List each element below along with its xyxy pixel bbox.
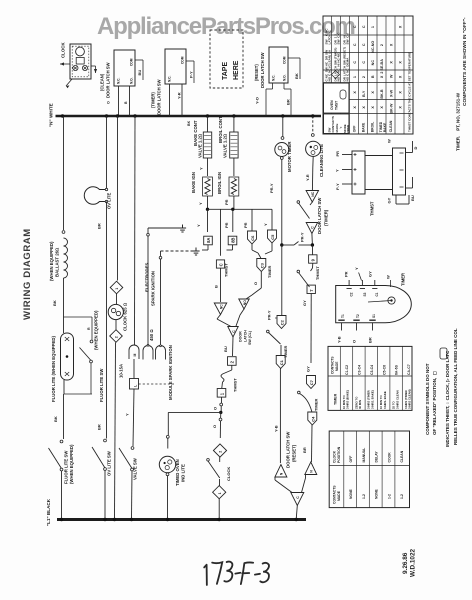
svg-text:HERE: HERE [233, 60, 240, 80]
svg-text:C1: C1 [279, 359, 284, 365]
svg-text:WIRING DIAGRAM: WIRING DIAGRAM [22, 228, 33, 320]
svg-text:2: 2 [219, 451, 223, 453]
svg-text:C6: C6 [250, 235, 255, 241]
svg-text:NC: NC [311, 191, 315, 196]
svg-text:VALVE 1.2Ω: VALVE 1.2Ω [223, 133, 228, 158]
svg-text:PR-Y: PR-Y [269, 183, 274, 193]
fluorescent tube [61, 333, 74, 380]
svg-text:P-Y: P-Y [188, 71, 193, 78]
motor timer column [281, 114, 284, 117]
svg-text:CLOCK: CLOCK [61, 42, 66, 58]
common reset triangle [291, 493, 304, 506]
svg-text:BALLAST 26Ω: BALLAST 26Ω [55, 247, 60, 277]
svg-text:C: C [362, 25, 366, 28]
svg-text:NO C NC (CLEAN) LA: NO C NC (CLEAN) LA [328, 49, 332, 81]
svg-text:O: O [106, 101, 110, 104]
svg-text:MADE: MADE [335, 362, 339, 371]
svg-text:BU: BU [223, 346, 228, 352]
svg-text:BU: BU [410, 195, 415, 201]
svg-text:THMST: THMST [232, 378, 237, 392]
svg-text:O: O [212, 425, 217, 428]
svg-text:TMST: TMST [335, 100, 339, 110]
svg-text:(WHEN EQUIPPED): (WHEN EQUIPPED) [94, 310, 99, 350]
8A connector [207, 209, 209, 232]
reset sw right leg BR [283, 83, 285, 89]
wire V2: clock motor [116, 114, 119, 117]
svg-text:2: 2 [362, 76, 366, 78]
bake contactor valve column [206, 114, 209, 117]
svg-text:R: R [87, 327, 91, 330]
svg-text:B: B [214, 285, 219, 288]
svg-text:(WHEN EQUIPPED): (WHEN EQUIPPED) [49, 241, 54, 281]
svg-text:C: C [353, 61, 357, 64]
svg-text:COMPONENTS ARE SHOWN IN "OFF"-: COMPONENTS ARE SHOWN IN "OFF"- [462, 17, 468, 106]
thmst box 9 [309, 255, 317, 263]
cross link with switch tick [282, 244, 294, 246]
svg-text:NO C NC DEMA: NO C NC DEMA [346, 57, 350, 82]
clean sw legs to bus [118, 86, 120, 116]
door latch timer triangle NC [306, 191, 319, 203]
bottom bus "L1" BLACK [57, 518, 306, 521]
svg-text:PR-Y: PR-Y [300, 232, 305, 242]
P-Y pigtail [186, 60, 194, 62]
svg-text:3 HRS CLEAN): 3 HRS CLEAN) [408, 389, 412, 409]
svg-text:O: O [212, 407, 217, 410]
svg-text:DOOR: DOOR [239, 331, 243, 342]
ground 1 [182, 225, 184, 229]
svg-text:OV LITE SW: OV LITE SW [107, 450, 112, 476]
reset triangle NC [305, 462, 317, 475]
svg-text:NC-NO: NC-NO [371, 41, 375, 53]
valve sw [131, 447, 134, 450]
C2 connector [277, 316, 286, 329]
fluor lite sw [91, 317, 93, 340]
timer assembly [336, 286, 412, 323]
svg-text:Y-B: Y-B [273, 425, 278, 432]
svg-text:BAKE IGN: BAKE IGN [191, 172, 196, 193]
svg-text:COOK: COOK [387, 452, 391, 463]
svg-text:3 HRS. BAKE): 3 HRS. BAKE) [371, 390, 375, 409]
svg-text:(TIMER): (TIMER) [151, 92, 156, 108]
fluor wire to bottom bus + switch [63, 394, 65, 439]
svg-text:O: O [253, 282, 258, 285]
svg-text:THMST: THMST [224, 263, 229, 277]
cleaning lite column [311, 114, 314, 117]
svg-text:RELLES TRUE CONFIGURATION, ALL: RELLES TRUE CONFIGURATION, ALL FEED LINE… [453, 328, 458, 445]
wire: fluor lite feed (ballast) [61, 114, 64, 117]
timer contact to C4 [299, 389, 311, 394]
BK pigtail [288, 57, 300, 59]
svg-text:C1: C1 [375, 292, 379, 296]
svg-text:O: O [351, 340, 356, 343]
svg-text:DOOR LATCH SW: DOOR LATCH SW [106, 62, 111, 98]
svg-text:8A: 8A [206, 238, 211, 243]
svg-text:Y: Y [263, 223, 268, 226]
spark module domes 2,3 + electrodes [143, 346, 153, 360]
svg-text:X-W: X-W [389, 89, 393, 97]
svg-text:PR: PR [335, 151, 340, 157]
svg-text:"N" WHITE: "N" WHITE [49, 103, 54, 127]
svg-text:N.O.: N.O. [283, 74, 287, 81]
svg-text:C: C [362, 61, 366, 64]
svg-text:NO: NO [243, 300, 247, 305]
svg-text:Y-B: Y-B [336, 336, 341, 343]
timed oven ind lite [167, 412, 169, 435]
clock position table [329, 431, 409, 508]
timer selector triangle [239, 299, 250, 309]
wire V3: spark module / valve sw [133, 114, 136, 117]
svg-text:DELAY: DELAY [375, 451, 379, 463]
svg-text:B: B [124, 101, 128, 104]
svg-text:W: W [389, 74, 393, 78]
clock (top-left component box) [70, 44, 91, 79]
svg-text:(CLEAN): (CLEAN) [100, 73, 105, 91]
ballast coil 26 ohm [64, 238, 68, 278]
svg-text:ELECTRODES: ELECTRODES [145, 263, 150, 292]
svg-text:BK-B: BK-B [380, 89, 384, 99]
timer sw legs [169, 84, 171, 116]
svg-text:DOOR LATCH SW: DOOR LATCH SW [260, 52, 265, 88]
svg-text:W: W [387, 139, 392, 143]
svg-text:Y-R: Y-R [305, 174, 310, 181]
svg-text:(RESET): (RESET) [254, 64, 259, 81]
jumper to timed-oven wire [168, 411, 221, 413]
svg-text:GY: GY [387, 197, 392, 203]
svg-text:C4: C4 [310, 416, 315, 422]
svg-text:"L1" BLACK: "L1" BLACK [46, 498, 51, 526]
C5 connector [271, 209, 273, 230]
svg-text:9.26.86: 9.26.86 [402, 552, 409, 574]
diamond mark in chart [332, 71, 340, 79]
svg-text:D: D [413, 147, 418, 150]
svg-text:NC: NC [371, 60, 375, 66]
svg-text:W: W [386, 275, 391, 279]
handwritten 173-F-3 [204, 560, 270, 586]
svg-text:1-2: 1-2 [387, 494, 391, 499]
thmst C branch [220, 209, 222, 255]
svg-text:NONE: NONE [375, 488, 379, 499]
thmst box 7 [307, 285, 315, 293]
door latch timer triangle C [306, 223, 318, 234]
svg-text:1-2: 1-2 [400, 494, 404, 499]
ground 2 [195, 248, 197, 252]
BU pigtail of clean sw [135, 59, 143, 61]
svg-text:COMPONENT SYMBOLS DO NOT: COMPONENT SYMBOLS DO NOT [425, 363, 430, 435]
contact chart table [323, 16, 413, 134]
wire V1: OV LITE / OV LITE SW [105, 114, 108, 117]
svg-text:DOOR LATCH SW: DOOR LATCH SW [286, 431, 291, 468]
svg-text:BAKE: BAKE [383, 122, 387, 132]
svg-text:Y-R: Y-R [176, 92, 181, 99]
svg-text:Y: Y [354, 267, 359, 270]
svg-text:C3-C4: C3-C4 [358, 365, 362, 375]
svg-text:PR-Y: PR-Y [267, 310, 272, 320]
svg-text:LATCH: LATCH [243, 330, 247, 342]
svg-text:FLUOR LITE SW: FLUOR LITE SW [64, 450, 69, 484]
svg-text:8B: 8B [230, 238, 235, 243]
oven light lamp [84, 187, 106, 205]
svg-text:1: 1 [353, 76, 357, 78]
svg-text:BR: BR [97, 223, 102, 229]
broil contactor valve column [232, 114, 235, 117]
C6 connector [251, 209, 253, 231]
svg-text:450 Ω: 450 Ω [149, 329, 154, 341]
svg-text:TIMER. PT, NO, 327151-W: TIMER. PT, NO, 327151-W [456, 92, 461, 151]
top bus "N" WHITE [56, 115, 322, 117]
svg-text:C3-C4: C3-C4 [370, 365, 374, 375]
svg-text:AppliancePartsPros.com: AppliancePartsPros.com [97, 13, 355, 40]
svg-text:OFF: OFF [352, 126, 356, 133]
svg-text:1: 1 [218, 492, 222, 494]
svg-text:2 SE-BA: 2 SE-BA [380, 59, 384, 74]
svg-text:OFF: OFF [349, 456, 353, 463]
svg-text:B-Y: B-Y [362, 90, 366, 97]
svg-text:BROIL: BROIL [371, 122, 375, 133]
svg-text:C: C [362, 43, 366, 46]
10-15A box [130, 379, 139, 390]
C7 connector [307, 376, 316, 389]
thmst selector triangle NC [214, 303, 227, 315]
door latch sw (clean) [114, 50, 135, 86]
svg-text:PR: PR [224, 222, 229, 228]
spark module dome 1 [129, 345, 139, 359]
svg-text:MODULE SPARK IGNITION: MODULE SPARK IGNITION [168, 345, 173, 400]
svg-text:C2: C2 [350, 292, 354, 296]
svg-text:S1: S1 [372, 314, 376, 318]
svg-text:DOOR LATCH SW: DOOR LATCH SW [317, 197, 322, 234]
svg-text:SW CN: SW CN [346, 33, 350, 45]
svg-text:10-15A: 10-15A [119, 364, 124, 378]
svg-text:CONTACTS: CONTACTS [332, 485, 336, 504]
C3 connector / timer [257, 259, 266, 272]
clock diamond 2 [213, 444, 226, 457]
svg-text:SW C C: SW C C [337, 32, 341, 45]
svg-text:T1: T1 [341, 314, 345, 318]
svg-text:GY: GY [302, 300, 307, 306]
clock right lead [91, 65, 96, 67]
svg-text:MANUAL: MANUAL [362, 448, 366, 463]
clock diamond 1 [219, 479, 221, 486]
reset triangle NO [275, 465, 287, 478]
svg-text:(TIMER): (TIMER) [323, 209, 328, 226]
C4 connector [308, 412, 317, 425]
svg-text:CLEANING LITE: CLEANING LITE [319, 144, 324, 177]
svg-text:C3: C3 [259, 262, 264, 268]
svg-text:CLOCK: CLOCK [226, 467, 231, 481]
svg-text:T2: T2 [356, 314, 360, 318]
svg-text:OV LITE: OV LITE [107, 193, 112, 209]
svg-text:TIMER: TIMER [267, 265, 272, 278]
svg-text:TIMER: TIMER [401, 273, 406, 286]
tape here dashed box [210, 30, 243, 88]
svg-text:BR: BR [367, 337, 372, 343]
svg-text:C1-C2: C1-C2 [345, 365, 349, 375]
svg-text:C: C [353, 43, 357, 46]
svg-text:CLEAN: CLEAN [400, 450, 404, 462]
svg-text:C5: C5 [270, 234, 275, 240]
oven thermostat assembly [352, 151, 365, 194]
svg-text:BK: BK [52, 300, 57, 306]
clock bottom-left lead [66, 79, 72, 86]
svg-text:INDICATES THMST, ○ CLOCK, ▷ DO: INDICATES THMST, ○ CLOCK, ▷ DOOR LATC [445, 350, 450, 447]
timer contact blade [268, 329, 281, 333]
svg-text:CLOCK: CLOCK [332, 450, 336, 463]
svg-text:(RESET): (RESET) [291, 444, 296, 462]
svg-text:NONE: NONE [349, 488, 353, 499]
svg-text:BK-W: BK-W [389, 103, 393, 114]
common triangle [228, 327, 239, 338]
svg-text:PR: PR [243, 222, 248, 228]
fluor lite sw jumpers [64, 316, 93, 318]
svg-text:3 HRS CLEAN: 3 HRS CLEAN [395, 390, 399, 409]
clock motor circle 625 ohm [108, 304, 123, 319]
svg-text:THMST: THMST [370, 201, 375, 216]
C1 connector [276, 356, 285, 369]
svg-text:GY: GY [306, 366, 311, 372]
svg-text:BU: BU [137, 70, 142, 76]
svg-text:CLEAN: CLEAN [389, 120, 393, 132]
svg-text:BK: BK [53, 416, 58, 422]
svg-text:BAKE: BAKE [361, 122, 365, 132]
svg-text:2: 2 [115, 336, 119, 338]
svg-text:C5-C6: C5-C6 [382, 365, 386, 375]
svg-text:VALVE SW: VALVE SW [133, 457, 138, 480]
svg-text:SPARK IGNITION: SPARK IGNITION [150, 271, 155, 306]
svg-text:N.C.: N.C. [272, 75, 276, 81]
svg-text:OF "RELAXED" POSITION, ▢: OF "RELAXED" POSITION, ▢ [432, 370, 437, 435]
svg-text:3 HRS. BAKE: 3 HRS. BAKE [383, 391, 387, 409]
svg-text:THMST: THMST [315, 266, 320, 280]
svg-text:N.C.: N.C. [168, 76, 172, 82]
svg-text:OVEN: OVEN [330, 100, 334, 110]
svg-text:N.O.: N.O. [130, 77, 134, 84]
reset sw left leg [272, 83, 274, 89]
svg-text:THMST CONTACTS THE CYCLE AT SE: THMST CONTACTS THE CYCLE AT SET TEMPERAT… [408, 52, 412, 132]
svg-text:SW (CL): SW (CL) [248, 330, 252, 345]
junction rail [206, 208, 209, 211]
svg-text:BR: BR [286, 99, 291, 105]
svg-text:FLUOR LITE (WHEN EQUIPPED): FLUOR LITE (WHEN EQUIPPED) [51, 336, 56, 402]
svg-text:1-2: 1-2 [362, 494, 366, 499]
svg-text:Y: Y [198, 167, 203, 170]
svg-text:NC: NC [219, 304, 223, 309]
svg-text:CLOCK 625 Ω: CLOCK 625 Ω [123, 302, 128, 331]
svg-text:CA-C7: CA-C7 [407, 364, 411, 375]
svg-text:B: B [371, 75, 375, 78]
svg-text:LATCH C: LATCH C [328, 30, 332, 45]
svg-text:P-Y: P-Y [335, 183, 340, 190]
8B connector [232, 209, 234, 232]
svg-text:(WHEN EQUIPPED): (WHEN EQUIPPED) [69, 444, 74, 484]
svg-text:TIMER: TIMER [334, 393, 338, 405]
svg-text:BROIL IGN: BROIL IGN [217, 172, 222, 194]
svg-text:BK: BK [294, 73, 299, 79]
svg-text:M: M [133, 354, 137, 357]
svg-text:DOOR LATCH SW: DOOR LATCH SW [157, 79, 162, 115]
svg-text:COM: COM [283, 56, 287, 64]
svg-text:Y: Y [125, 413, 130, 416]
svg-text:POSITION: POSITION [337, 446, 341, 463]
svg-text:TIMED OVEN: TIMED OVEN [175, 459, 180, 486]
connector diamond upper [110, 281, 123, 294]
clock left lead W [60, 63, 70, 65]
svg-text:IND LITE: IND LITE [181, 464, 186, 482]
svg-text:OPER: OPER [346, 125, 350, 133]
svg-text:TAPE: TAPE [222, 62, 229, 80]
svg-text:FLUOR LITE SW: FLUOR LITE SW [99, 368, 104, 402]
svg-text:C7: C7 [309, 379, 314, 385]
svg-text:BK: BK [187, 120, 191, 126]
svg-text:30 MIN: 30 MIN [358, 400, 362, 409]
box 2 [228, 357, 237, 366]
svg-text:COM: COM [181, 56, 185, 64]
svg-text:Y-O: Y-O [255, 97, 260, 104]
svg-text:Y: Y [196, 224, 201, 227]
svg-text:1: 1 [115, 288, 119, 290]
box 1 [217, 389, 226, 398]
ov lite sw [104, 439, 107, 442]
svg-text:MOTOR TIMER: MOTOR TIMER [287, 141, 292, 172]
timer intervals table [328, 346, 412, 410]
svg-text:VALVE 1.2Ω: VALVE 1.2Ω [198, 133, 203, 158]
svg-text:S3: S3 [363, 292, 367, 296]
svg-text:N.C.: N.C. [117, 78, 121, 84]
bake valve coil box [203, 132, 211, 158]
door latch sw (timer) [165, 49, 186, 84]
svg-text:MADE: MADE [337, 490, 341, 501]
connector diamond lower [110, 330, 123, 343]
svg-text:3 HRS (BAKE): 3 HRS (BAKE) [346, 390, 350, 409]
svg-text:1: 1 [371, 26, 375, 28]
svg-text:GY: GY [368, 271, 373, 277]
svg-text:C: C [353, 25, 357, 28]
svg-text:PR: PR [344, 271, 349, 277]
svg-text:6A-6S: 6A-6S [395, 364, 399, 375]
svg-text:BR: BR [97, 424, 102, 430]
svg-text:W.D.1022: W.D.1022 [410, 548, 417, 577]
svg-text:COM: COM [130, 58, 134, 66]
svg-text:C2: C2 [280, 319, 285, 325]
svg-text:PR: PR [224, 199, 229, 205]
svg-text:BR: BR [302, 447, 307, 453]
svg-text:2: 2 [380, 44, 384, 46]
door latch sw (reset) [269, 47, 288, 83]
svg-text:Y: Y [334, 169, 339, 172]
dashed pointer to module label [139, 383, 175, 385]
svg-text:Y: Y [198, 202, 203, 205]
svg-text:TIMER: TIMER [314, 398, 319, 411]
